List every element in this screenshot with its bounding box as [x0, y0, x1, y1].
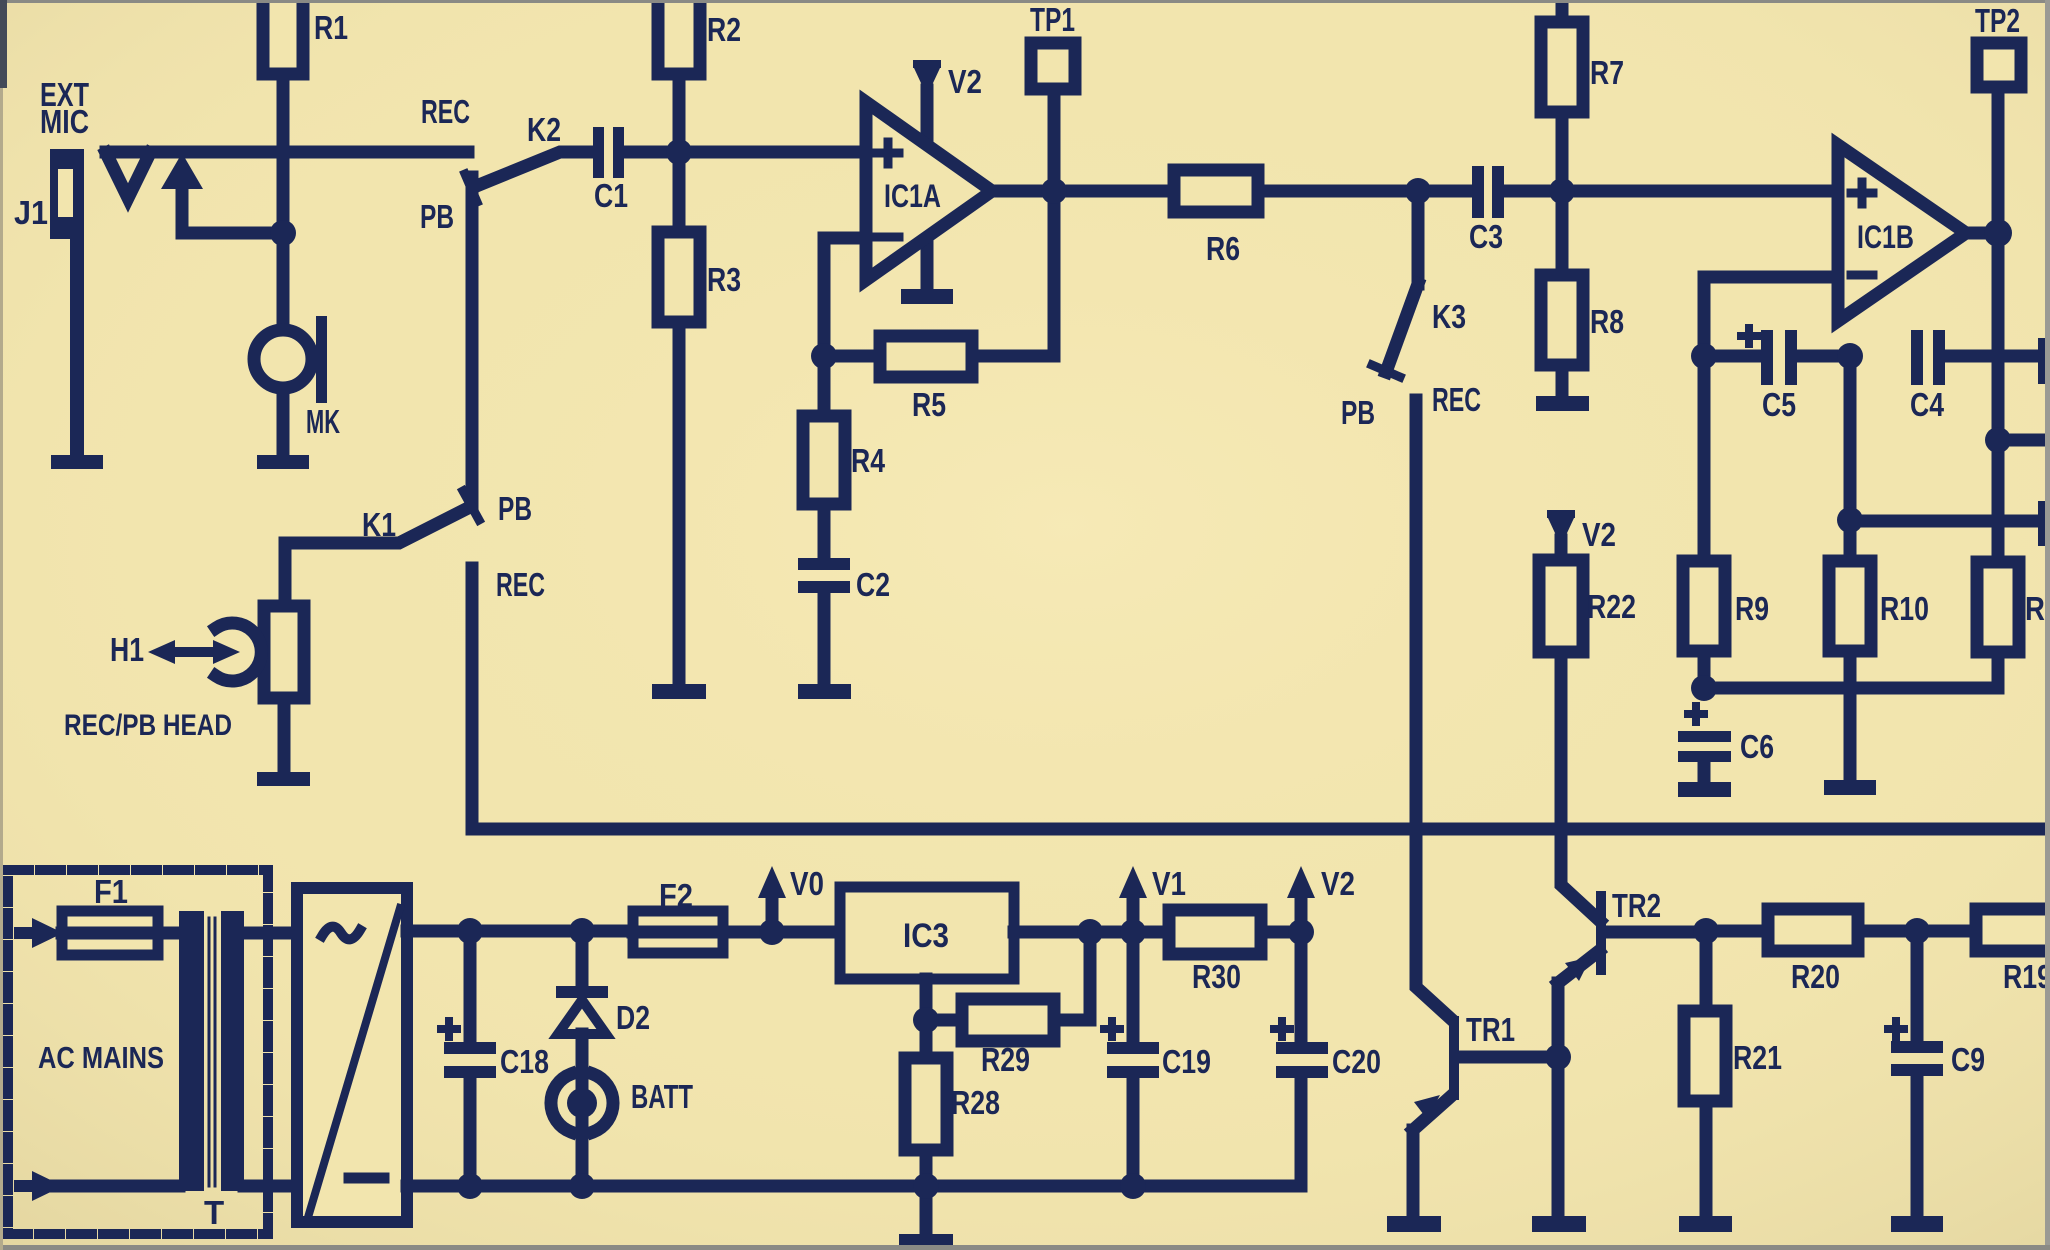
svg-text:IC3: IC3	[903, 917, 949, 955]
dashed enclosure AC MAINS	[8, 870, 268, 1234]
capacitor C6	[1678, 706, 1774, 782]
ground under C6	[1678, 782, 1731, 797]
svg-text:C9: C9	[1951, 1041, 1985, 1078]
fuse F2	[633, 877, 772, 953]
ground under R28	[899, 1234, 953, 1249]
ground under TR2	[1532, 1216, 1586, 1232]
border frame left	[0, 0, 3, 1250]
ground under R3	[652, 684, 706, 699]
svg-text:K2: K2	[527, 111, 561, 148]
wire rectifier + output	[407, 925, 633, 938]
resistor R20	[1706, 909, 1917, 995]
resistor R7	[1541, 0, 1624, 191]
svg-text:REC/PB HEAD: REC/PB HEAD	[64, 709, 232, 742]
transformer core	[209, 918, 215, 1186]
svg-text:R9: R9	[1735, 590, 1769, 627]
capacitor C9	[1888, 931, 1985, 1216]
rec/pb head H1	[110, 606, 304, 772]
test point TP2	[1975, 2, 2021, 233]
transistor TR2	[1558, 652, 1706, 1057]
node D2 top	[569, 918, 595, 944]
svg-text:C18: C18	[500, 1043, 549, 1080]
node IC1A output junction	[1041, 178, 1067, 204]
wire secondary bottom to rectifier	[244, 1180, 297, 1193]
capacitor C5	[1704, 328, 1850, 423]
svg-text:R8: R8	[1590, 303, 1624, 340]
wire C4 junction down to R10	[1844, 356, 1857, 520]
test point TP1	[1030, 1, 1075, 191]
switch K2	[465, 111, 596, 202]
node C18 top	[457, 918, 483, 944]
ground under C2	[798, 684, 851, 699]
node R10 top junction	[1837, 507, 1863, 533]
svg-text:R19: R19	[2003, 958, 2050, 995]
label EXT MIC	[40, 76, 89, 140]
ground under head	[257, 772, 310, 786]
svg-text:H1: H1	[110, 631, 144, 668]
wire IC3 adj pin	[920, 979, 933, 1020]
svg-text:R7: R7	[1590, 54, 1624, 91]
switch K3	[1372, 191, 1466, 377]
capacitor C20	[1274, 932, 1381, 1186]
arrow AC input bottom	[20, 1171, 179, 1201]
capacitor C19	[1104, 932, 1211, 1186]
svg-text:V1: V1	[1152, 865, 1186, 902]
svg-text:C4: C4	[1910, 386, 1945, 423]
ground under IC1A	[901, 289, 953, 304]
resistor R3	[658, 152, 741, 684]
ground under J1	[51, 455, 103, 469]
op-amp IC1B	[1838, 145, 1966, 321]
node C1-R2 junction	[666, 139, 692, 165]
resistor R1	[263, 0, 348, 233]
svg-text:MK: MK	[306, 403, 340, 440]
svg-text:TP2: TP2	[1975, 2, 2020, 39]
svg-text:K3: K3	[1432, 298, 1466, 335]
wire to IC1A + input	[679, 146, 866, 159]
node C18 bottom	[457, 1173, 483, 1199]
svg-text:AC MAINS: AC MAINS	[38, 1040, 164, 1075]
ground under TR1	[1387, 1216, 1441, 1232]
svg-text:IC1A: IC1A	[884, 178, 941, 214]
node V2 bottom	[1288, 919, 1314, 945]
power V0 arrow	[758, 865, 824, 932]
wire K1 to head	[279, 543, 292, 608]
resistor R9	[1683, 356, 1769, 688]
regulator IC3	[772, 887, 1090, 979]
resistor R11	[1977, 562, 2050, 688]
wire R10 junction to right edge	[1850, 515, 2040, 528]
capacitor C18	[441, 931, 549, 1186]
svg-text:R21: R21	[1733, 1039, 1782, 1076]
edge capacitor plate right of C4	[2038, 338, 2050, 384]
svg-text:R4: R4	[851, 442, 886, 479]
node IC1B output junction	[1984, 219, 2012, 247]
node R20-R19 junction	[1904, 918, 1930, 944]
wire K3 REC rail to TR1 collector	[1416, 400, 1450, 1018]
capacitor C1	[593, 127, 667, 214]
wire stub to right edge	[1998, 434, 2048, 447]
ground under R21	[1679, 1216, 1732, 1232]
resistor R4	[803, 356, 886, 504]
wire PB rail K2-K1	[466, 177, 479, 504]
jack contact V symbol	[106, 153, 150, 198]
svg-text:C5: C5	[1762, 386, 1796, 423]
node TR2 emitter / TR1 base junction	[1545, 1044, 1571, 1070]
rectifier bridge	[297, 888, 407, 1222]
svg-text:BATT: BATT	[631, 1078, 693, 1115]
svg-text:R30: R30	[1192, 958, 1241, 995]
node V1	[1120, 919, 1146, 945]
node C19 on rail	[1120, 1173, 1146, 1199]
transistor TR1	[1413, 1011, 1558, 1216]
svg-text:R5: R5	[912, 386, 946, 423]
wire TR2 emitter to ground	[1552, 1057, 1565, 1216]
resistor R6	[1174, 170, 1472, 267]
svg-text:C3: C3	[1469, 218, 1503, 255]
svg-text:TR1: TR1	[1466, 1011, 1515, 1048]
jack switch arrow	[161, 153, 283, 233]
svg-text:R20: R20	[1791, 958, 1840, 995]
svg-text:REC: REC	[1432, 381, 1481, 418]
wire EXT MIC line	[106, 146, 468, 159]
node IC3 output junction	[1077, 919, 1103, 945]
svg-text:R3: R3	[707, 261, 741, 298]
microphone MK	[254, 233, 340, 455]
fuse F1	[62, 911, 158, 955]
svg-text:J1: J1	[14, 194, 48, 231]
power V2 arrow at R22	[1548, 514, 1616, 560]
node V0	[759, 919, 785, 945]
resistor R10	[1829, 520, 1929, 780]
resistor R8	[1541, 191, 1624, 396]
node R9 bottom junction	[1691, 675, 1717, 701]
wire R9-R11 bottom link	[1704, 652, 1998, 688]
node D2 bottom	[569, 1173, 595, 1199]
edge capacitor plate right end	[2038, 501, 2050, 546]
wire IC1A output	[992, 185, 1174, 198]
wire K1 REC rail down to bus	[466, 568, 479, 829]
node R7-R8 junction	[1549, 178, 1575, 204]
capacitor C4	[1910, 330, 2040, 423]
power V2 arrow bottom	[1287, 865, 1355, 932]
wire negative rail	[407, 1180, 1300, 1193]
node mic junction	[270, 220, 296, 246]
capacitor C3	[1469, 166, 1838, 255]
svg-text:TP1: TP1	[1030, 1, 1075, 38]
resistor R5 feedback	[824, 191, 1054, 423]
wire TP2 column down	[1992, 233, 2005, 562]
border frame right	[2045, 0, 2050, 1250]
node right column junction	[1985, 427, 2011, 453]
border frame top	[0, 0, 2050, 3]
svg-text:R29: R29	[981, 1041, 1030, 1078]
svg-text:F1: F1	[94, 873, 128, 910]
svg-text:C1: C1	[594, 177, 628, 214]
wire IC1A inverting input	[824, 238, 866, 356]
resistor R30	[1133, 910, 1301, 995]
battery BATT	[551, 1073, 693, 1186]
svg-text:R2: R2	[707, 11, 741, 48]
svg-text:PB: PB	[420, 198, 454, 235]
svg-text:R1: R1	[314, 9, 348, 46]
svg-text:PB: PB	[498, 490, 532, 527]
wire REC bus	[472, 823, 2048, 836]
node C5 left junction	[1691, 343, 1717, 369]
resistor R2	[658, 0, 741, 152]
svg-text:V2: V2	[1582, 516, 1616, 553]
svg-text:C6: C6	[1740, 728, 1774, 765]
svg-text:R10: R10	[1880, 590, 1929, 627]
transformer T primary	[179, 911, 204, 1191]
svg-text:C20: C20	[1332, 1043, 1381, 1080]
node K3 junction	[1405, 178, 1431, 204]
resistor R29	[926, 999, 1054, 1078]
svg-text:C19: C19	[1162, 1043, 1211, 1080]
op-amp IC1A	[866, 102, 992, 280]
svg-text:V2: V2	[1321, 865, 1355, 902]
svg-text:REC: REC	[421, 93, 470, 130]
svg-text:REC: REC	[496, 566, 545, 603]
head arrow	[148, 640, 240, 664]
resistor R22	[1539, 560, 1636, 652]
ground under C9	[1891, 1216, 1943, 1232]
resistor R28	[905, 1020, 1000, 1234]
svg-text:V2: V2	[948, 63, 982, 100]
wire R29 right leg	[1054, 932, 1090, 1020]
svg-text:V0: V0	[790, 865, 824, 902]
ground under R10	[1824, 780, 1876, 795]
connector J1	[14, 149, 84, 457]
border frame bottom	[0, 1245, 2050, 1250]
wire IC1B inverting input	[1704, 277, 1838, 356]
svg-text:D2: D2	[616, 999, 650, 1036]
power V2 arrow at IC1A	[914, 63, 982, 289]
node R28 on rail	[913, 1173, 939, 1199]
svg-text:R28: R28	[951, 1084, 1000, 1121]
resistor R19	[1917, 909, 2050, 995]
ground under R8	[1536, 396, 1589, 411]
svg-text:MIC: MIC	[40, 103, 89, 140]
diode D2	[556, 931, 650, 1073]
svg-text:PB: PB	[1341, 394, 1375, 431]
arrow AC input top	[20, 918, 63, 948]
node R4-R5 junction	[811, 343, 837, 369]
wire secondary top to rectifier	[244, 927, 297, 940]
svg-text:R22: R22	[1587, 588, 1636, 625]
wire IC1B output stub	[1966, 227, 1998, 240]
node TR2 base junction	[1693, 918, 1719, 944]
svg-text:R6: R6	[1206, 230, 1240, 267]
capacitor C2	[798, 504, 890, 684]
svg-text:T: T	[204, 1194, 224, 1231]
wire F1 to transformer	[158, 927, 182, 940]
node C5-C4 junction	[1837, 343, 1863, 369]
svg-text:IC1B: IC1B	[1857, 219, 1914, 255]
resistor R21	[1684, 931, 1782, 1216]
ground under MK	[257, 455, 309, 469]
transformer T secondary	[204, 911, 244, 1231]
switch K1	[285, 491, 479, 543]
svg-text:TR2: TR2	[1612, 887, 1661, 924]
power V1 arrow	[1119, 865, 1186, 932]
svg-text:C2: C2	[856, 566, 890, 603]
node R28-R29 junction	[913, 1007, 939, 1033]
wire IC3 out to V1	[1090, 926, 1133, 939]
